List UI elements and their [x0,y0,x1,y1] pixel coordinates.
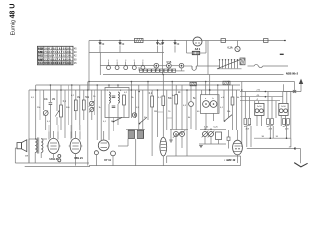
svg-text:0 3.7 0 6 5.6.4 7 7 6 8.0.5 3: 0 3.7 0 6 5.6.4 7 7 6 8.0.5 3 4. [38,55,72,58]
svg-text:UAF 42: UAF 42 [227,159,236,162]
svg-text:8: 8 [134,60,135,62]
svg-text:NSB 80+2: NSB 80+2 [286,71,299,75]
svg-text:UBL: UBL [38,52,43,54]
svg-text:3 1.7 8 5.5 4.5 8.6 2.4 7 1.9.: 3 1.7 8 5.5 4.5 8.6 2.4 7 1.9.4 [38,62,71,65]
svg-text:8: 8 [108,60,109,62]
svg-text:5W: 5W [25,156,28,158]
svg-text:1M: 1M [77,97,80,99]
svg-text:8: 8 [125,60,126,62]
svg-text:W: W [111,121,113,123]
svg-text:2M: 2M [52,99,55,101]
svg-text:UY1: UY1 [38,56,43,58]
svg-text:6.0.9 2 2.7 8.6.5.7.4.7.6.6 5: 6.0.9 2 2.7 8.6.5.7.4.7.6.6 5 4 [38,58,71,61]
svg-text:NSB: NSB [167,62,172,64]
svg-text:8: 8 [142,60,143,62]
svg-text:AZ 1: AZ 1 [195,48,201,51]
svg-text:UAF: UAF [38,58,43,61]
svg-text:6.4 8.7.0 3 3.7 0 6.1 7 4 6.8: 6.4 8.7.0 3 3.7 0 6.1 7 4 6.8 9. [38,51,72,54]
svg-text:UY 11: UY 11 [104,159,111,162]
svg-text:8: 8 [117,60,118,62]
svg-text:UBL 21: UBL 21 [74,157,83,160]
svg-text:Eumig 48 U: Eumig 48 U [10,4,17,36]
svg-text:2M: 2M [154,111,157,113]
svg-text:UCH: UCH [38,49,43,51]
svg-text:0,1A: 0,1A [228,47,233,50]
